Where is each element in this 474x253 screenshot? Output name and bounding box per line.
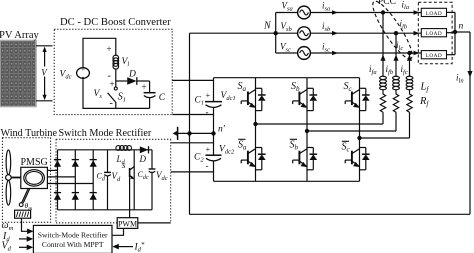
wire inverter output phase b to filter (307, 130, 396, 132)
wire load a output (447, 11, 456, 13)
wire phase b from N to source (276, 32, 298, 34)
transistor Sc upper IGBT (345, 88, 369, 110)
svg-text:Switch-Mode Rectifier: Switch-Mode Rectifier (38, 231, 108, 240)
label Sc-bar (342, 141, 351, 153)
wire gate S to PWM (129, 177, 131, 218)
wire filter branch b to inverter leg (395, 112, 397, 131)
svg-text:s: s (122, 160, 126, 170)
node N junction (274, 31, 278, 35)
node phase c PCC tap (407, 51, 411, 55)
diode D rectifier (140, 146, 149, 153)
wire inductor to diode junction (115, 69, 117, 87)
wire inverter leg c vertical (359, 78, 361, 182)
svg-text:+: + (110, 79, 115, 89)
wire rectifier bridge leg 2 (74, 150, 76, 210)
wire PV top to boost box (36, 45, 53, 47)
svg-text:-: - (206, 161, 209, 171)
node leg a output junction (253, 122, 257, 126)
arrow Id-star into control box (112, 244, 119, 250)
wire neutral right vertical to n (469, 32, 471, 214)
wire filter branch a vertical top (382, 13, 384, 77)
svg-text:DC - DC Boost Converter: DC - DC Boost Converter (60, 17, 171, 28)
current arrow isb (332, 31, 338, 36)
svg-text:LOAD: LOAD (426, 31, 442, 37)
svg-text:N: N (263, 21, 272, 32)
capacitor Cdc rectifier output (149, 150, 156, 210)
wire PMSG phase 3 to bridge (47, 183, 93, 185)
wire Id input (19, 238, 30, 240)
wire shaft to position sensor (22, 189, 30, 203)
current arrow isa (332, 10, 338, 15)
arrow omega m into control box (27, 229, 33, 235)
wire DC plus rail vertical (213, 78, 215, 102)
wire filter branch c vertical top (409, 53, 411, 77)
wire Vdc top to inductor (83, 38, 116, 67)
diode bridge lower D5 (72, 193, 79, 200)
loads dashed box (418, 2, 452, 63)
label Sa-bar (238, 139, 247, 151)
svg-text:D: D (139, 154, 147, 164)
wire boost bottom return (83, 78, 150, 108)
wire phase c source to load box (310, 52, 421, 54)
wire filter branch c to inverter leg (409, 112, 411, 138)
wire phase a source to load box (310, 12, 421, 14)
wire rectifier positive output to DC link (171, 142, 214, 144)
wire PMSG phase 2 to bridge (47, 176, 75, 178)
capacitor C2 (206, 155, 222, 181)
inductor L boost (113, 55, 119, 69)
wire Vd input (19, 246, 30, 248)
wire rectifier bridge leg 3 (92, 150, 94, 210)
wire load c output (447, 54, 456, 56)
transistor Sa-bar lower IGBT (241, 148, 265, 170)
svg-text:n′: n′ (218, 125, 226, 135)
wire inverter output phase a to filter (256, 123, 384, 125)
svg-text:PCC: PCC (378, 0, 396, 7)
node phase a PCC tap (381, 10, 385, 14)
wire inverter DC plus rail (214, 77, 360, 79)
current arrow ifa (380, 55, 385, 61)
svg-text:+: + (206, 144, 211, 154)
source Vsb (298, 27, 311, 40)
dc source Vdc (77, 67, 90, 81)
svg-text:Wind Turbine: Wind Turbine (1, 128, 58, 139)
transistor S rectifier switch (130, 150, 135, 210)
wire filter branch a to inverter leg (382, 112, 384, 124)
transistor Sc-bar lower IGBT (345, 148, 369, 170)
resistor Rf phase b (393, 90, 398, 112)
wire load neutral bus (454, 12, 456, 54)
label Sb-bar (290, 139, 299, 151)
rectifier dashed box (56, 139, 171, 223)
node leg c output junction (357, 136, 361, 140)
wire PWM to rectifier box edge (138, 222, 171, 224)
diode bridge lower D6 (90, 193, 97, 200)
wire filter branch b vertical top (395, 33, 397, 76)
load box phase c (421, 51, 446, 60)
resistor Rf phase a (380, 90, 385, 112)
diode bridge upper D3 (90, 160, 97, 167)
svg-text:Switch Mode Rectifier: Switch Mode Rectifier (59, 128, 152, 139)
node leg b output junction (305, 129, 309, 133)
svg-text:PMSG: PMSG (21, 157, 48, 168)
wire encoder to control box omega (22, 218, 30, 231)
wire rectifier bridge leg 1 (57, 150, 59, 210)
svg-text:Control With MPPT: Control With MPPT (42, 240, 104, 249)
wire phase b source to load box (310, 32, 421, 34)
wire source riser (275, 13, 277, 54)
wire neutral rail left vertical from N (189, 33, 191, 214)
svg-text:n: n (459, 22, 464, 32)
wire boost negative output to DC link (172, 114, 213, 116)
wire n to right rail (455, 31, 470, 33)
transistor Sa upper IGBT (241, 88, 265, 110)
transistor Sb upper IGBT (293, 88, 317, 110)
wire rectifier negative output to DC link (171, 171, 214, 173)
wire neutral bottom (190, 213, 471, 215)
current arrow ilb (414, 31, 420, 36)
wire boost positive output to DC link (172, 79, 213, 81)
node nprime junction (211, 131, 215, 135)
inductor Lf phase b (393, 76, 400, 90)
sensor circle theta (19, 203, 23, 207)
current arrow ilc (414, 51, 420, 56)
boost converter dashed box (54, 29, 172, 114)
source Vsc (298, 47, 311, 60)
transistor Sb-bar lower IGBT (293, 148, 317, 170)
wire inverter output phase c to filter (360, 137, 410, 139)
wind turbine blades (6, 150, 21, 205)
svg-text:LOAD: LOAD (426, 11, 442, 17)
switch S1 (108, 87, 118, 108)
arrow Vd into control box (27, 245, 34, 251)
load box phase a (421, 8, 446, 16)
encoder box (15, 210, 31, 218)
svg-text:C: C (159, 93, 166, 103)
svg-text:D: D (128, 70, 136, 80)
controller box Switch-Mode Rectifier Control With MPPT (33, 225, 112, 253)
wire inverter leg a vertical (255, 78, 257, 182)
current arrow isc (332, 51, 338, 56)
inductor Ld (116, 146, 132, 151)
capacitor C boost output (144, 81, 156, 108)
arrow Id into control box (27, 236, 34, 242)
wire rectifier bottom rail (58, 209, 153, 211)
resistor Rf phase c (407, 90, 412, 112)
svg-text:+: + (206, 90, 211, 100)
capacitor Cd (104, 150, 111, 210)
wire load b output (447, 32, 456, 34)
svg-text:+: + (107, 44, 112, 54)
generator PMSG (21, 167, 48, 188)
diode bridge upper D2 (72, 160, 79, 167)
diode bridge lower D4 (54, 193, 61, 200)
wire PWM output to control box (112, 228, 124, 235)
voltage arrow V across PV output (41, 47, 49, 101)
wire inverter DC minus rail (214, 180, 360, 182)
wind turbine dashed box (2, 138, 50, 222)
inductor Lf phase a (380, 76, 387, 90)
wire Id-star input (118, 246, 134, 248)
PCC dashed ellipse (367, 0, 417, 63)
diode D boost (116, 77, 150, 85)
junction dot neutral rail at nprime wire (187, 131, 191, 135)
capacitor C1 (205, 102, 222, 134)
wire inverter leg b vertical (306, 78, 308, 182)
neutral tap arrow at rectifier edge (173, 127, 178, 140)
node phase b PCC tap (394, 31, 398, 35)
wire nprime horizontal to neutral rail (178, 132, 214, 134)
wire phase a from riser to source (276, 12, 298, 14)
wire rectifier top rail (58, 149, 153, 151)
wire N feeder (190, 32, 276, 34)
source Vsa (298, 6, 311, 19)
inductor Lf phase c (406, 76, 413, 90)
svg-text:PV Array: PV Array (0, 30, 40, 41)
wire PV bottom to boost box (36, 100, 53, 102)
labels plus Vs minus for switch (94, 79, 115, 109)
wire phase c from riser to source (276, 52, 298, 54)
svg-text:-: - (206, 107, 209, 117)
current arrow ila (414, 10, 420, 15)
current arrow iln (467, 71, 472, 78)
current arrow ifc (407, 55, 412, 61)
svg-text:-: - (110, 98, 113, 109)
svg-text:PWM: PWM (118, 219, 137, 228)
wire PMSG phase 1 to bridge (47, 169, 57, 171)
PV array panel (0, 41, 36, 107)
svg-text:LOAD: LOAD (426, 53, 442, 59)
svg-text:+: + (142, 82, 147, 92)
load box phase b (421, 29, 446, 37)
PWM block (117, 218, 138, 229)
diode bridge upper D1 (54, 160, 61, 167)
current arrow ifb (393, 55, 398, 61)
node n junction (453, 30, 457, 34)
wire nprime to C2 (213, 133, 215, 155)
